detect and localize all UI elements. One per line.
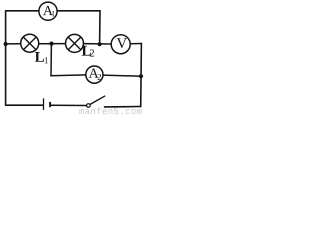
label L2 [82,46,94,57]
switch S [87,96,106,107]
wire top-right segment [57,10,101,12]
label L1 [35,52,48,63]
wire A2 branch vertical [50,44,52,77]
wire right vertical [140,43,143,107]
wire row2 L2-to-V [83,43,111,45]
node A2-branch-junction [49,42,53,46]
node right-junction [139,74,143,78]
wire row2 battery-to-L1 [6,43,21,45]
wire battery-to-switch [51,104,87,106]
wire switch-to-corner bottom-right [104,106,142,108]
wire A2 row right [103,75,141,76]
wire row2 V-to-corner [130,43,142,45]
wire top-left segment [6,10,39,12]
node top-branch-junction [98,42,102,46]
node left-junction [4,42,8,46]
wire top-right vertical drop [99,10,101,44]
wire row2 L1-to-L2 [39,43,66,45]
battery [44,98,51,110]
ammeter A2 [86,66,103,83]
lamp L1 [21,34,39,52]
ammeter A1 [39,2,57,20]
watermark [79,109,84,114]
wire left vertical [5,10,7,106]
voltmeter V [111,35,130,54]
wire bottom-left segment [6,104,44,106]
lamp L2 [66,34,84,52]
wire A2 row left [50,74,86,77]
